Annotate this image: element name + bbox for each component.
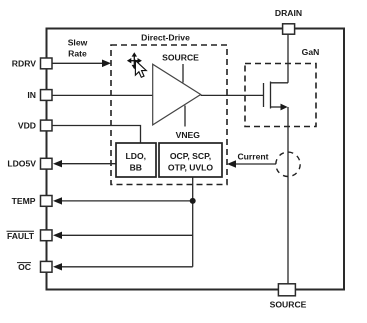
svg-text:SOURCE: SOURCE: [162, 53, 199, 63]
svg-text:BB: BB: [130, 163, 142, 173]
svg-text:TEMP: TEMP: [12, 196, 36, 206]
svg-text:Rate: Rate: [68, 49, 87, 59]
svg-text:FAULT: FAULT: [7, 231, 35, 241]
svg-text:VDD: VDD: [18, 120, 36, 130]
svg-text:OC: OC: [18, 262, 31, 272]
svg-text:LDO,: LDO,: [126, 151, 147, 161]
svg-text:Direct-Drive: Direct-Drive: [141, 33, 190, 43]
svg-text:VNEG: VNEG: [176, 130, 201, 140]
svg-text:Current: Current: [237, 152, 268, 162]
svg-text:SOURCE: SOURCE: [270, 300, 307, 310]
svg-text:DRAIN: DRAIN: [275, 8, 302, 18]
svg-text:IN: IN: [27, 90, 36, 100]
svg-text:Slew: Slew: [68, 37, 88, 47]
svg-text:GaN: GaN: [302, 47, 320, 57]
svg-text:LDO5V: LDO5V: [7, 159, 36, 169]
svg-text:RDRV: RDRV: [12, 58, 36, 68]
svg-text:OTP, UVLO: OTP, UVLO: [168, 163, 214, 173]
svg-text:OCP, SCP,: OCP, SCP,: [170, 151, 211, 161]
